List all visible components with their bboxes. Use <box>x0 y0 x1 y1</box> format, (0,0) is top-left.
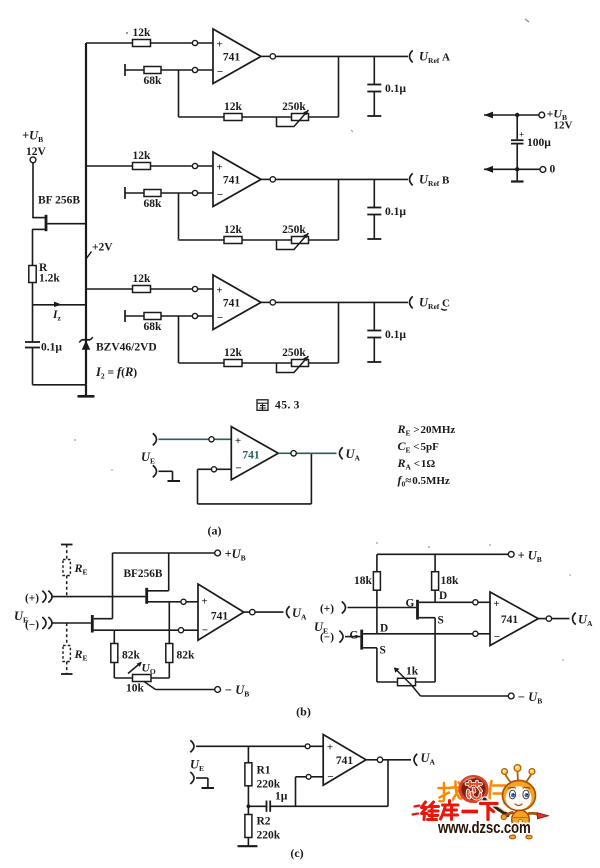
label D upper b-right <box>439 590 447 602</box>
label Iz text <box>52 309 61 323</box>
svg-text:741: 741 <box>211 611 229 623</box>
node b-right minus circle <box>473 631 478 636</box>
label spec CE<5pF <box>398 439 440 455</box>
label R value <box>39 262 48 274</box>
node b-left minus circle <box>178 628 183 633</box>
wire stage B output <box>261 178 408 180</box>
op-amp 741 section-a <box>231 427 278 480</box>
label (a) caption <box>208 524 222 538</box>
watermark mascot legs <box>509 828 532 839</box>
node section-a input circle <box>209 437 214 442</box>
svg-text:68k: 68k <box>144 321 163 333</box>
label UA b-right <box>578 613 593 629</box>
svg-text:12k: 12k <box>133 150 152 162</box>
wire c input row <box>196 745 323 747</box>
resistor 12k stage B input <box>133 163 151 170</box>
node stage B output circle <box>270 177 275 182</box>
label 68k stage A value <box>144 75 163 87</box>
label UO b-left <box>142 663 156 677</box>
wire b-right pot row <box>377 681 435 683</box>
wire b-right output <box>538 618 569 620</box>
watermark char xin in glass <box>467 782 482 799</box>
svg-text:12k: 12k <box>133 273 152 285</box>
label 250k stage B value <box>282 224 306 236</box>
svg-text:12k: 12k <box>133 27 152 39</box>
label 1.2k value <box>39 273 60 285</box>
resistor R 1.2k <box>29 266 36 283</box>
wire c output <box>366 759 411 761</box>
wire stage A noninverting input row <box>86 42 213 44</box>
svg-text:18k: 18k <box>354 575 373 587</box>
svg-text:−: − <box>235 463 241 475</box>
svg-text:BZV46/2VD: BZV46/2VD <box>96 342 157 354</box>
label b-left -UB <box>225 683 250 699</box>
terminal section-a lower input <box>153 465 157 477</box>
terminal b-left -UB circle <box>215 687 221 693</box>
op-amp 741 b-right <box>490 592 538 646</box>
wire section-a inverting feedback <box>198 453 312 504</box>
wire stage B feedback tap vertical <box>178 193 180 240</box>
svg-text:68k: 68k <box>144 75 163 87</box>
wire b-right +UB row <box>377 553 508 555</box>
terminal b-left +UB circle <box>215 550 221 556</box>
resistor 12k stage A feedback <box>224 114 242 121</box>
watermark mascot antennae <box>502 765 535 782</box>
label 1u value <box>275 791 288 803</box>
svg-text:− UB: − UB <box>518 690 543 706</box>
wire left rail to R <box>32 229 34 265</box>
label URefA output <box>419 50 450 66</box>
svg-text:741: 741 <box>336 755 354 767</box>
label D lower b-right <box>380 623 388 635</box>
label spec RA<1ohm <box>397 456 436 472</box>
label UE b-right <box>314 620 328 636</box>
svg-text:741: 741 <box>223 298 241 310</box>
terminal c input <box>190 740 194 752</box>
svg-text:UE: UE <box>141 450 155 466</box>
label 12k stage B feedback value <box>224 224 243 236</box>
label 12k stage C feedback value <box>224 347 243 359</box>
node c plus circle <box>305 744 310 749</box>
label 100u value <box>527 137 551 149</box>
label UE c <box>190 758 204 774</box>
svg-text:1µ: 1µ <box>275 791 288 803</box>
label (c) caption <box>290 846 303 860</box>
potentiometer 1k b-right <box>394 667 416 685</box>
svg-text:S: S <box>380 645 386 657</box>
wire stage C feedback right vertical <box>338 302 340 363</box>
terminal b-left plus <box>42 591 52 603</box>
resistor 12k stage C feedback <box>224 360 242 367</box>
capacitor 0.1u left <box>25 305 40 385</box>
label supply bottom arrow <box>484 166 493 173</box>
watermark mascot head <box>503 781 536 811</box>
svg-text:+: + <box>327 742 333 754</box>
transistor b-left upper FET <box>53 588 170 604</box>
label RE lower <box>74 647 88 663</box>
wire stage C feedback tap vertical <box>178 316 180 363</box>
wire stage A output <box>261 55 408 57</box>
svg-text:68k: 68k <box>144 198 163 210</box>
ground c R2 <box>238 845 258 847</box>
svg-text:R2: R2 <box>257 816 271 828</box>
capacitor 0.1u stage B <box>367 179 381 239</box>
svg-text:UA: UA <box>578 613 593 629</box>
terminal stage A output <box>410 50 413 62</box>
transistor b-right lower FET <box>362 630 377 650</box>
svg-text:250k: 250k <box>282 224 306 236</box>
resistor 82k right <box>166 602 173 678</box>
wire stage C feedback row <box>179 362 339 364</box>
wire supply bottom row <box>484 168 540 170</box>
terminal b-left output <box>287 606 290 618</box>
label G upper b-right <box>406 598 415 610</box>
op-amp 741 stage B <box>213 152 261 207</box>
label UE section-a <box>141 450 155 466</box>
wire b-left drain vertical right <box>168 553 170 591</box>
terminal c output <box>414 754 417 766</box>
svg-text:+UB: +UB <box>225 547 246 563</box>
terminal stage C output <box>410 296 413 308</box>
wire stage A feedback row <box>179 116 339 118</box>
terminal b-left minus <box>42 617 52 629</box>
svg-text:RA < 1Ω: RA < 1Ω <box>397 456 436 472</box>
resistor 68k stage C <box>144 313 161 320</box>
node stage C output circle <box>270 300 275 305</box>
svg-text:1.2k: 1.2k <box>39 273 60 285</box>
svg-text:CE < 5pF: CE < 5pF <box>398 439 440 455</box>
label b-right -UB <box>518 690 543 706</box>
node b-left plus circle <box>181 599 186 604</box>
label 250k stage A value <box>282 101 306 113</box>
svg-text:G: G <box>406 598 415 610</box>
label Iz equals f(R) <box>95 365 137 381</box>
svg-text:0.1µ: 0.1µ <box>385 206 406 218</box>
label UE b-left <box>14 609 28 625</box>
svg-text:+: + <box>216 39 222 51</box>
svg-text:−: − <box>494 631 500 643</box>
terminal 0V circle <box>540 167 546 173</box>
node +2V tick <box>86 252 92 260</box>
watermark mascot body <box>512 810 530 828</box>
wire Iz row <box>33 304 87 306</box>
terminal b-right plus <box>342 602 346 614</box>
wire stage B inverting input row <box>125 187 213 199</box>
svg-text:−: − <box>202 625 208 637</box>
svg-text:250k: 250k <box>282 101 306 113</box>
wire main vertical bus <box>85 43 87 385</box>
node c inverting circle <box>306 774 311 779</box>
resistor RE upper dashed <box>61 545 73 597</box>
node stage B noninverting junction <box>192 163 197 168</box>
resistor R2 220k <box>245 806 252 846</box>
wire b-right plus row <box>435 601 490 603</box>
svg-text:(a): (a) <box>208 524 222 538</box>
svg-text:URef A: URef A <box>419 50 450 66</box>
svg-text:12k: 12k <box>224 347 243 359</box>
svg-text:+: + <box>216 162 222 174</box>
watermark magnifier glass <box>458 775 488 803</box>
watermark mascot mouth <box>515 804 522 806</box>
label 1k value <box>406 666 419 678</box>
label S upper b-right <box>438 615 444 627</box>
svg-text:−: − <box>217 312 223 324</box>
wire R to Iz row <box>32 283 34 305</box>
svg-text:741: 741 <box>223 175 241 187</box>
label 18k left value <box>354 575 373 587</box>
svg-text:220k: 220k <box>257 779 281 791</box>
wire b-right plus gate row <box>348 607 417 609</box>
svg-text:18k: 18k <box>441 575 460 587</box>
node section-a output circle <box>291 451 296 456</box>
label BF 256B left <box>38 195 80 207</box>
watermark char xia <box>481 804 498 820</box>
ground c input <box>196 778 214 788</box>
node c output circle <box>377 757 382 762</box>
terminal +UB left circle <box>30 157 36 163</box>
label supply top arrow <box>484 112 493 119</box>
label R2 220k value <box>257 830 281 842</box>
wire b-right minus gate row <box>345 636 360 638</box>
label Iz current arrow <box>54 302 62 307</box>
resistor 68k stage A <box>144 67 161 74</box>
svg-text:+: + <box>216 285 222 297</box>
label (b) caption <box>296 705 311 719</box>
capacitor 0.1u stage A <box>367 56 381 116</box>
resistor 82k left <box>111 630 118 678</box>
svg-text:G: G <box>350 630 359 642</box>
svg-text:220k: 220k <box>257 830 281 842</box>
svg-text:82k: 82k <box>122 650 141 662</box>
wire stage A inverting input row <box>125 64 213 76</box>
label 12k stage A feedback value <box>224 101 243 113</box>
label 82k right value <box>177 650 196 662</box>
svg-text:− UB: − UB <box>225 683 250 699</box>
label RE upper <box>74 561 88 577</box>
resistor 12k stage A input <box>133 40 151 47</box>
svg-text:RE: RE <box>74 647 88 663</box>
wire b-left output <box>244 611 284 613</box>
ground section-a input <box>159 471 181 481</box>
label 68k stage C value <box>144 321 163 333</box>
svg-text:BF 256B: BF 256B <box>38 195 80 207</box>
svg-text:+ UB: + UB <box>518 549 542 565</box>
svg-text:(−): (−) <box>320 632 334 644</box>
wire b-left pot row <box>114 677 169 679</box>
wire stage C noninverting input row <box>86 288 213 290</box>
potentiometer 10k UO <box>128 662 151 682</box>
label +2V <box>92 242 113 254</box>
svg-text:(−): (−) <box>25 619 39 631</box>
watermark char zhao <box>439 782 463 802</box>
label 12k stage B input value <box>133 150 152 162</box>
svg-text:250k: 250k <box>282 347 306 359</box>
svg-text:741: 741 <box>223 52 241 64</box>
svg-text:12V: 12V <box>554 120 573 132</box>
label UA b-left <box>292 606 307 622</box>
svg-text:D: D <box>439 590 447 602</box>
potentiometer 250k stage A <box>277 110 309 127</box>
terminal b-right +UB circle <box>508 551 514 557</box>
label 0.1u left value <box>41 342 62 354</box>
resistor 18k right <box>432 554 439 602</box>
terminal b-right output <box>573 613 576 625</box>
wire b-right wiper to -UB <box>411 685 508 697</box>
label 0.1u stage A value <box>385 83 406 95</box>
svg-text:45. 3: 45. 3 <box>275 400 300 412</box>
svg-text:RE: RE <box>74 561 88 577</box>
wire stage B feedback row <box>179 239 339 241</box>
wire section-a output <box>278 452 336 454</box>
wire b-left wiper to -UB <box>144 682 215 690</box>
label 12k stage C input value <box>133 273 152 285</box>
svg-text:URef C: URef C <box>419 296 450 312</box>
node section-a inverting circle <box>211 467 216 472</box>
node stage A inverting junction <box>192 67 197 72</box>
label (-) input b-right <box>320 632 334 644</box>
label b-right +UB <box>518 549 542 565</box>
potentiometer 250k stage B <box>277 233 309 250</box>
op-amp 741 stage A <box>213 29 261 84</box>
capacitor 100u electrolytic <box>511 117 524 169</box>
svg-text:+UB: +UB <box>22 129 43 145</box>
diode zener BZV46/2VD <box>79 337 93 350</box>
terminal stage B output <box>410 173 413 185</box>
svg-text:R1: R1 <box>257 765 271 777</box>
node stage C inverting junction <box>192 313 197 318</box>
resistor 12k stage C input <box>133 286 151 293</box>
wire b-right lower source vertical <box>376 648 378 682</box>
label S lower b-right <box>380 645 386 657</box>
wire b-right upper source vertical <box>434 618 436 682</box>
terminal c lower input <box>190 772 194 784</box>
svg-text:0.1µ: 0.1µ <box>41 342 62 354</box>
svg-text:+: + <box>519 130 524 140</box>
resistor R1 220k <box>245 746 252 806</box>
capacitor 1u c <box>248 801 388 812</box>
svg-text:12k: 12k <box>224 224 243 236</box>
svg-text:BF256B: BF256B <box>124 568 163 580</box>
wire stage B noninverting input row <box>86 165 213 167</box>
svg-text:1k: 1k <box>406 666 419 678</box>
label 0.1u stage C value <box>385 329 406 341</box>
svg-text:UE: UE <box>190 758 204 774</box>
svg-text:(c): (c) <box>290 846 303 860</box>
wire supply top row <box>484 114 539 116</box>
svg-text:0: 0 <box>550 164 556 176</box>
svg-text:S: S <box>438 615 444 627</box>
terminal section-a output <box>340 447 343 459</box>
svg-text:−: − <box>327 771 333 783</box>
label URefC output <box>419 296 450 312</box>
wire bottom row left column <box>33 384 87 386</box>
wire stage B feedback right vertical <box>338 179 340 240</box>
wire b-left source row lower <box>114 629 198 631</box>
label +UB supply <box>547 107 568 123</box>
svg-text:(+): (+) <box>25 593 39 605</box>
watermark mascot eyes <box>508 787 531 798</box>
wire c inverting <box>296 777 324 807</box>
label spec RE>20MHz <box>397 422 456 438</box>
label G lower b-right <box>350 630 359 642</box>
terminal b-right -UB circle <box>508 693 514 699</box>
op-amp 741 c <box>323 735 366 786</box>
svg-text:RE > 20MHz: RE > 20MHz <box>397 422 456 438</box>
label R1 220k value <box>257 779 281 791</box>
svg-text:UO: UO <box>142 663 156 677</box>
svg-text:10k: 10k <box>126 683 145 695</box>
label figure caption 45.3 <box>257 400 300 412</box>
resistor 68k stage B <box>144 190 161 197</box>
label R1 <box>257 765 271 777</box>
label +UB left supply <box>22 129 43 145</box>
svg-text:UA: UA <box>292 606 307 622</box>
op-amp 741 stage C <box>213 275 261 330</box>
label (+) input b-left <box>25 593 39 605</box>
speckle marks <box>74 19 571 661</box>
op-amp 741 b-left <box>198 584 244 640</box>
watermark char ku <box>441 801 459 820</box>
node b-left output circle <box>250 609 255 614</box>
svg-text:12k: 12k <box>224 101 243 113</box>
svg-text:12V: 12V <box>26 146 47 158</box>
svg-text:−: − <box>217 189 223 201</box>
resistor 18k left <box>373 554 380 634</box>
label UA c <box>421 751 436 767</box>
watermark speed dashes <box>413 806 420 815</box>
label 12k stage A input value <box>133 27 152 39</box>
node stage A output circle <box>270 54 275 59</box>
node stage A noninverting junction <box>192 40 197 45</box>
svg-text:(b): (b) <box>296 705 311 719</box>
terminal section-a input <box>153 433 157 445</box>
label 250k stage C value <box>282 347 306 359</box>
node stage C noninverting junction <box>192 286 197 291</box>
svg-text:0.1µ: 0.1µ <box>385 329 406 341</box>
ground left column <box>78 385 95 397</box>
terminal +UB supply circle <box>539 112 545 118</box>
svg-text:(+): (+) <box>320 603 334 615</box>
ground supply <box>511 172 524 182</box>
label (-) input b-left <box>25 619 39 631</box>
wire c feedback vertical <box>387 760 389 807</box>
svg-text:741: 741 <box>501 614 519 626</box>
node stage B inverting junction <box>192 190 197 195</box>
label BF256B b-left <box>124 568 163 580</box>
svg-text:+: + <box>493 598 499 610</box>
label 0V <box>550 164 556 176</box>
wire stage A feedback right vertical <box>338 56 340 117</box>
svg-text:+: + <box>201 595 207 607</box>
watermark url www.dzsc.com <box>437 819 531 838</box>
label 68k stage B value <box>144 198 163 210</box>
svg-text:100µ: 100µ <box>527 137 551 149</box>
svg-text:0.1µ: 0.1µ <box>385 83 406 95</box>
label 12V supply <box>554 120 573 132</box>
label UA section-a <box>346 447 361 463</box>
node c midpoint junction <box>247 804 251 808</box>
wire b-left +UB row <box>113 552 215 554</box>
wire b-left drain vertical left <box>112 553 114 619</box>
wire stage C output <box>261 301 408 303</box>
transistor b-right upper FET <box>418 600 436 620</box>
node b-right plus circle <box>473 600 478 605</box>
watermark magnifier handle <box>485 799 508 815</box>
node b-right output circle <box>546 616 551 621</box>
wire b-right minus row <box>377 633 490 635</box>
watermark char wei <box>422 802 440 820</box>
potentiometer 250k stage C <box>277 356 309 373</box>
